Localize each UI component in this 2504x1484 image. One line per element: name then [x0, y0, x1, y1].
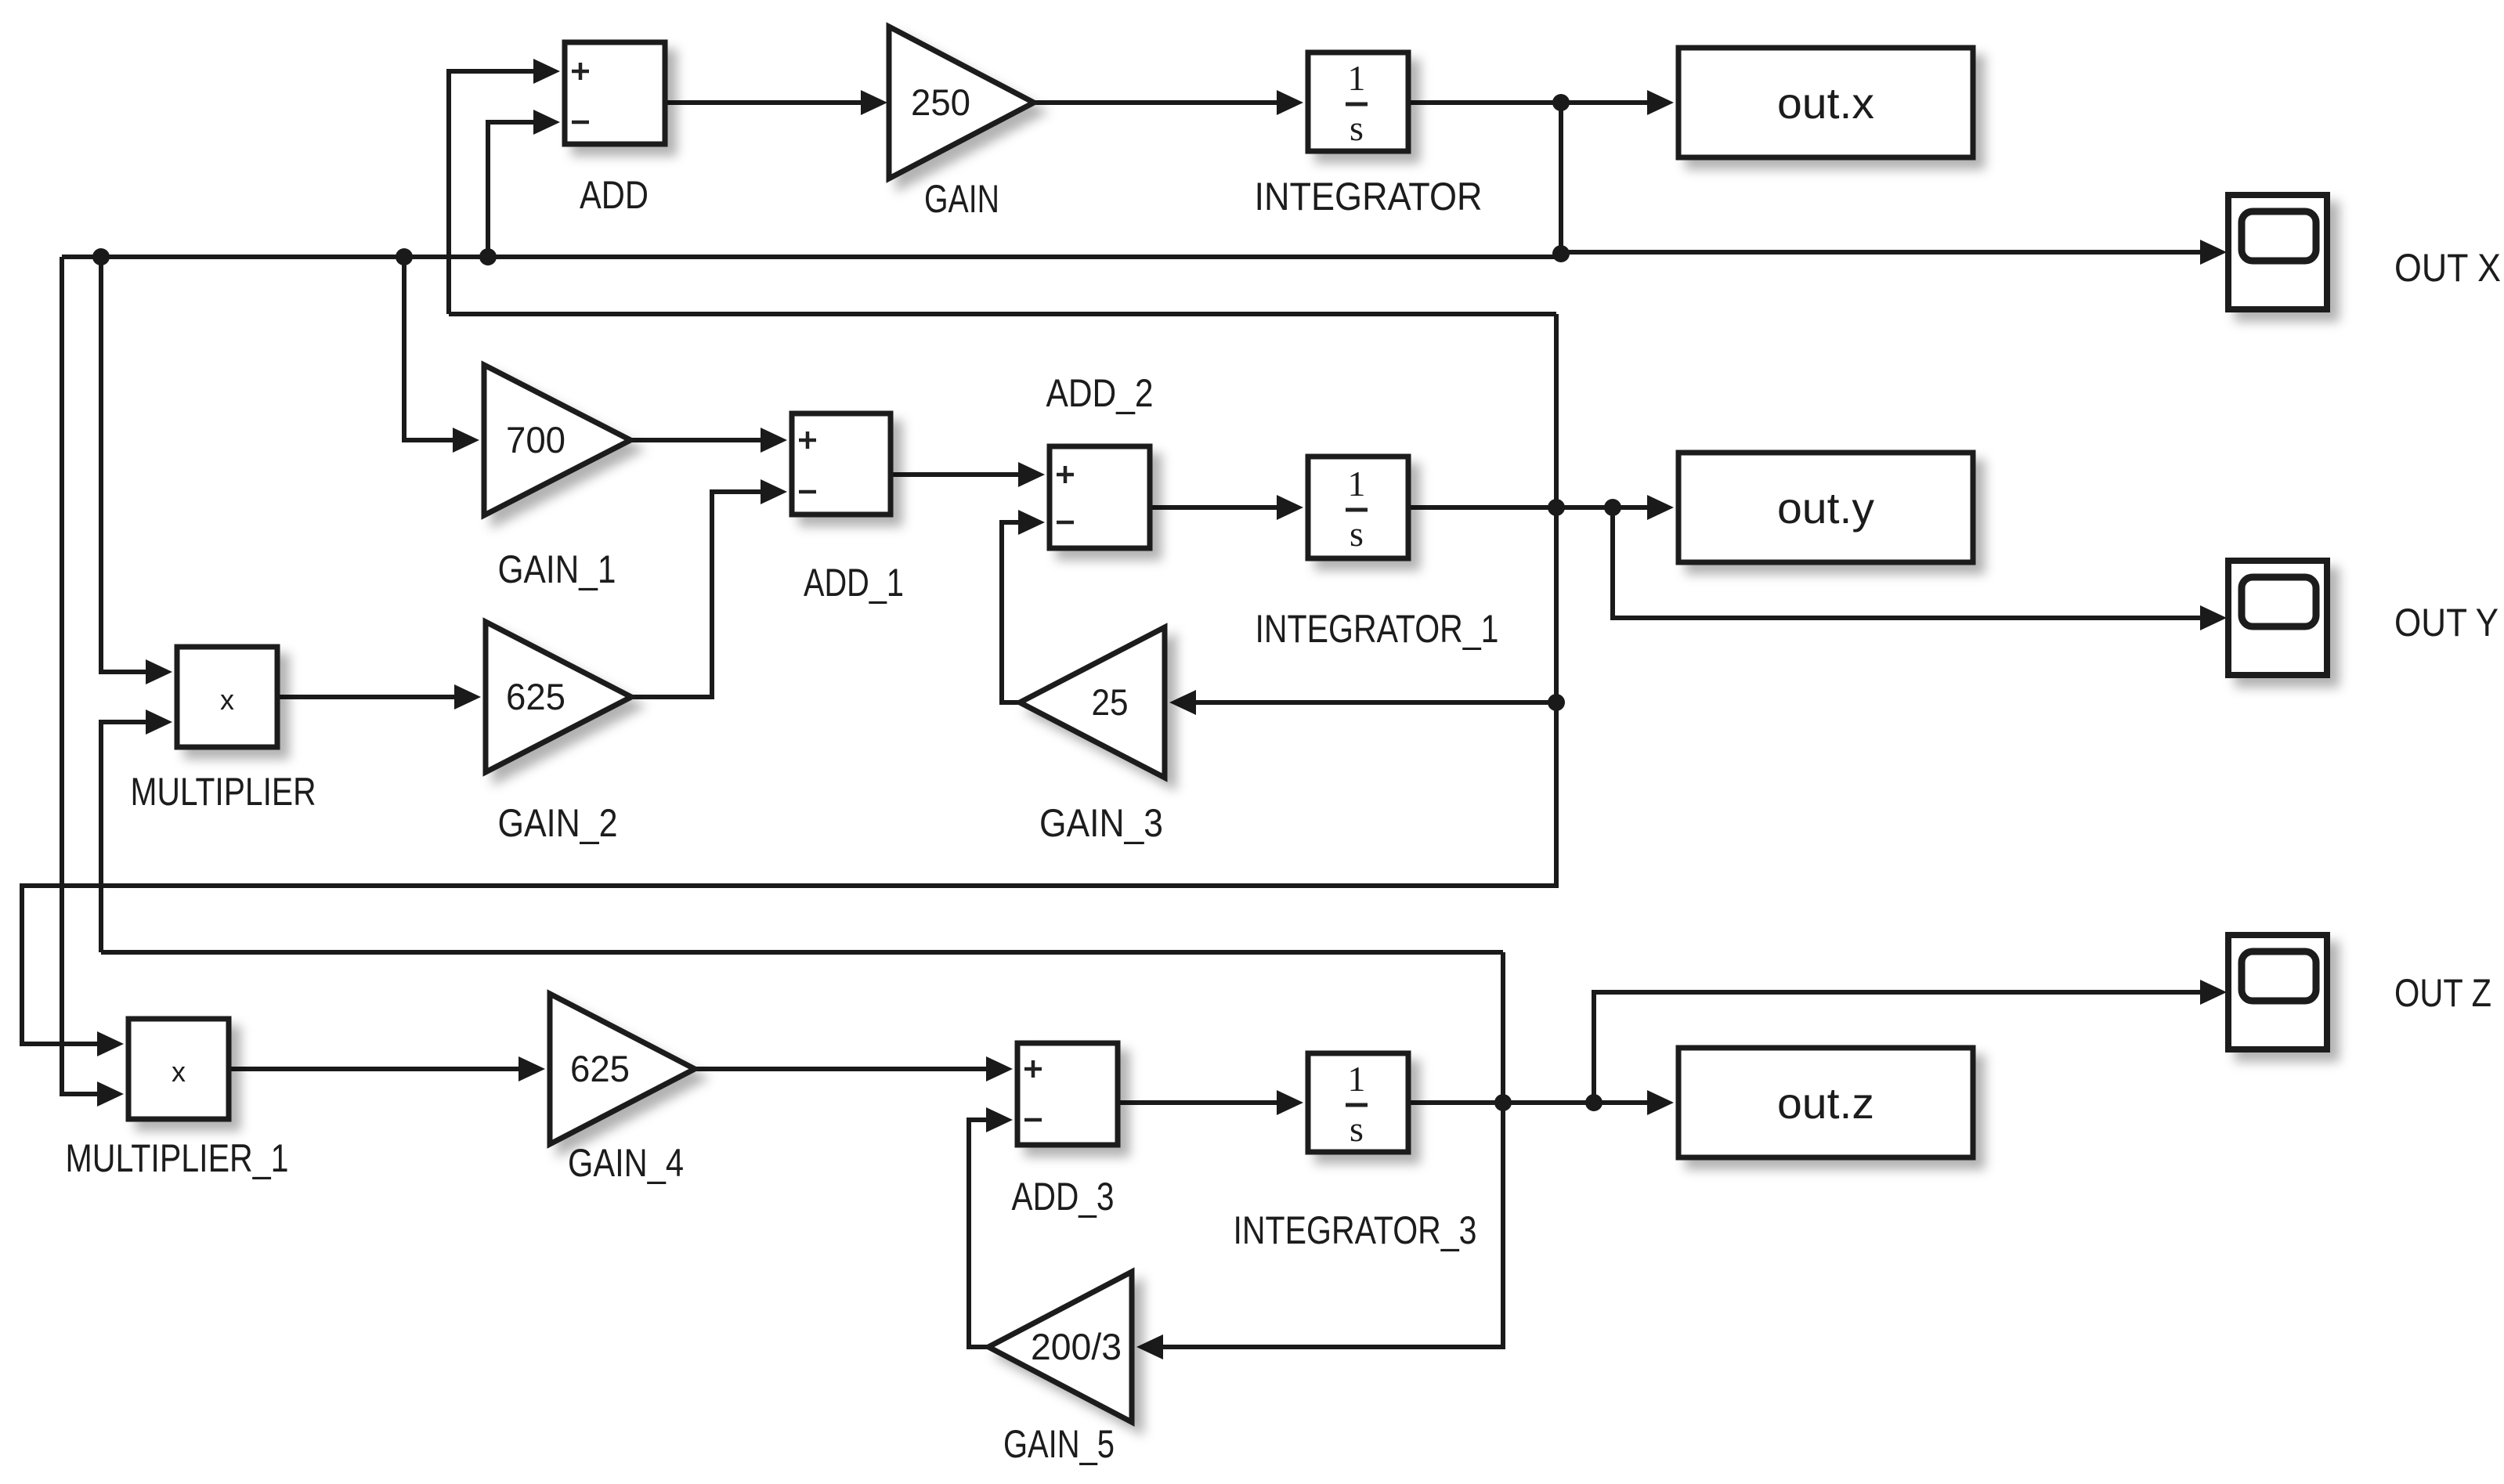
svg-text:ADD_1: ADD_1: [804, 561, 904, 605]
integrator block INTEGRATOR_1: [1308, 457, 1408, 558]
wire x-line to MULTIPLIER upper input: [101, 257, 172, 684]
svg-text:GAIN_3: GAIN_3: [1039, 801, 1163, 845]
wire out.y branch to OUT Y scope: [1613, 507, 2227, 630]
wire y line to ADD plus input: [449, 59, 560, 314]
wire x-line to MULTIPLIER_1 lower input: [62, 257, 124, 1107]
svg-text:700: 700: [506, 419, 565, 460]
svg-text:GAIN_5: GAIN_5: [1003, 1422, 1115, 1466]
svg-text:25: 25: [1092, 681, 1129, 723]
wire ADD_3 to INTEGRATOR_3: [1118, 1090, 1303, 1115]
svg-text:out.x: out.x: [1777, 78, 1874, 128]
svg-text:GAIN_4: GAIN_4: [568, 1141, 684, 1185]
svg-text:MULTIPLIER: MULTIPLIER: [131, 770, 316, 814]
svg-text:OUT Y: OUT Y: [2394, 601, 2499, 645]
wire GAIN_4 to ADD_3 plus input: [695, 1056, 1013, 1081]
svg-text:INTEGRATOR_1: INTEGRATOR_1: [1256, 607, 1499, 651]
svg-text:ADD: ADD: [580, 173, 649, 217]
svg-text:MULTIPLIER_1: MULTIPLIER_1: [66, 1136, 289, 1180]
svg-text:x: x: [172, 1056, 186, 1088]
junction node y to GAIN_3: [1548, 694, 1565, 711]
junction node z out right: [1585, 1094, 1602, 1111]
integrator block INTEGRATOR: [1308, 52, 1408, 151]
integrator block INTEGRATOR_3: [1308, 1053, 1408, 1152]
sum block ADD_2: [1050, 446, 1150, 548]
junction node x out upper: [1552, 94, 1570, 111]
gain block GAIN_4 value 625: [550, 994, 695, 1144]
wire out.z branch to OUT Z scope: [1594, 980, 2227, 1103]
wire GAIN_1 to ADD_1 plus input: [631, 428, 787, 453]
svg-text:out.z: out.z: [1777, 1078, 1874, 1128]
wire GAIN_5 to ADD_3 minus input: [969, 1107, 1013, 1347]
svg-text:s: s: [1350, 108, 1364, 148]
sum block ADD_1: [792, 413, 891, 515]
svg-text:OUT X: OUT X: [2394, 246, 2501, 290]
svg-text:s: s: [1350, 514, 1364, 554]
svg-text:1: 1: [1348, 464, 1366, 504]
junction node x-line to GAIN_1: [396, 248, 413, 265]
junction node x out lower: [1552, 245, 1570, 262]
junction node y to scope: [1604, 499, 1621, 516]
wire ADD_2 to INTEGRATOR_1: [1150, 495, 1303, 520]
gain block GAIN_2 value 625: [486, 622, 631, 772]
svg-text:INTEGRATOR: INTEGRATOR: [1255, 175, 1483, 218]
svg-text:GAIN: GAIN: [924, 177, 999, 221]
wire GAIN to INTEGRATOR: [1034, 90, 1303, 115]
wire ADD_1 to ADD_2 plus input: [891, 462, 1045, 487]
svg-text:GAIN_1: GAIN_1: [498, 547, 616, 591]
wire z line: [101, 950, 1503, 955]
svg-text:ADD_3: ADD_3: [1012, 1175, 1115, 1219]
wire x-line left: [62, 255, 1561, 259]
svg-text:625: 625: [570, 1048, 630, 1089]
wire MULTIPLIER_1 to GAIN_4: [229, 1056, 545, 1081]
svg-text:1: 1: [1348, 58, 1366, 98]
wire INTEGRATOR_3 to out.z: [1408, 1090, 1674, 1115]
wire x-line to GAIN_1 input: [404, 257, 479, 453]
gain block GAIN_3 value 25: [1020, 627, 1165, 778]
svg-text:x: x: [220, 684, 234, 716]
wire riser x-out to x-line: [1559, 103, 1563, 255]
output block out.z: [1678, 1048, 1973, 1157]
sum block ADD: [565, 42, 665, 144]
wire ADD to GAIN: [665, 90, 887, 115]
gain block GAIN value 250: [889, 27, 1034, 179]
output block out.x: [1678, 48, 1973, 157]
svg-text:out.y: out.y: [1777, 483, 1874, 533]
junction node z out left: [1494, 1094, 1512, 1111]
multiplier block MULTIPLIER: [177, 647, 277, 747]
wire INTEGRATOR_1 to out.y: [1408, 495, 1674, 520]
junction node x-line left: [92, 248, 110, 265]
wire y feedback line: [449, 312, 1556, 316]
scope block OUT X: [2228, 195, 2327, 309]
svg-text:625: 625: [506, 676, 565, 717]
scope block OUT Z: [2228, 935, 2327, 1049]
sum block ADD_3: [1017, 1043, 1118, 1145]
junction node x-line to ADD minus: [479, 248, 497, 265]
svg-text:250: 250: [911, 81, 970, 123]
gain block GAIN_1 value 700: [484, 365, 631, 515]
wire y to GAIN_3 input: [1169, 690, 1556, 715]
svg-text:1: 1: [1348, 1059, 1366, 1099]
junction node y out: [1548, 499, 1565, 516]
wire GAIN_2 to ADD_1 minus input: [631, 479, 787, 697]
svg-text:GAIN_2: GAIN_2: [498, 801, 618, 845]
output block out.y: [1678, 453, 1973, 562]
multiplier block MULTIPLIER_1: [128, 1019, 229, 1119]
wire MULTIPLIER to GAIN_2: [277, 684, 481, 710]
scope block OUT Y: [2228, 561, 2327, 675]
wire INTEGRATOR to out.x: [1408, 90, 1674, 115]
svg-text:ADD_2: ADD_2: [1046, 371, 1154, 415]
svg-text:s: s: [1350, 1109, 1364, 1149]
wire GAIN_3 to ADD_2 minus input: [1002, 510, 1045, 702]
gain block GAIN_5 value 200/3: [988, 1272, 1132, 1422]
wire z line to MULTIPLIER lower input: [101, 710, 172, 952]
svg-text:INTEGRATOR_3: INTEGRATOR_3: [1234, 1208, 1477, 1252]
wire x-line right to OUT X scope: [1561, 240, 2227, 265]
wire x-line to ADD minus input: [488, 110, 560, 257]
svg-text:OUT Z: OUT Z: [2394, 971, 2491, 1015]
wire z riser up to z line: [1501, 952, 1505, 1103]
wire z riser down to GAIN_5 input: [1136, 1103, 1503, 1359]
wire y riser down to MULTIPLIER_1 upper input: [22, 314, 1556, 1056]
svg-text:200/3: 200/3: [1031, 1326, 1122, 1367]
